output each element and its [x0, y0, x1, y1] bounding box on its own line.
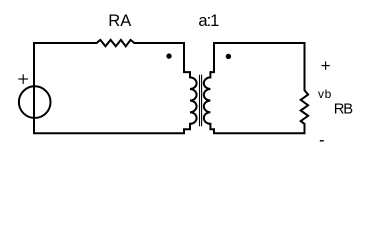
svg-text:RA: RA: [108, 12, 131, 30]
svg-text:a:1: a:1: [198, 12, 219, 30]
svg-text:vb: vb: [318, 87, 332, 101]
svg-text:RB: RB: [334, 101, 353, 117]
